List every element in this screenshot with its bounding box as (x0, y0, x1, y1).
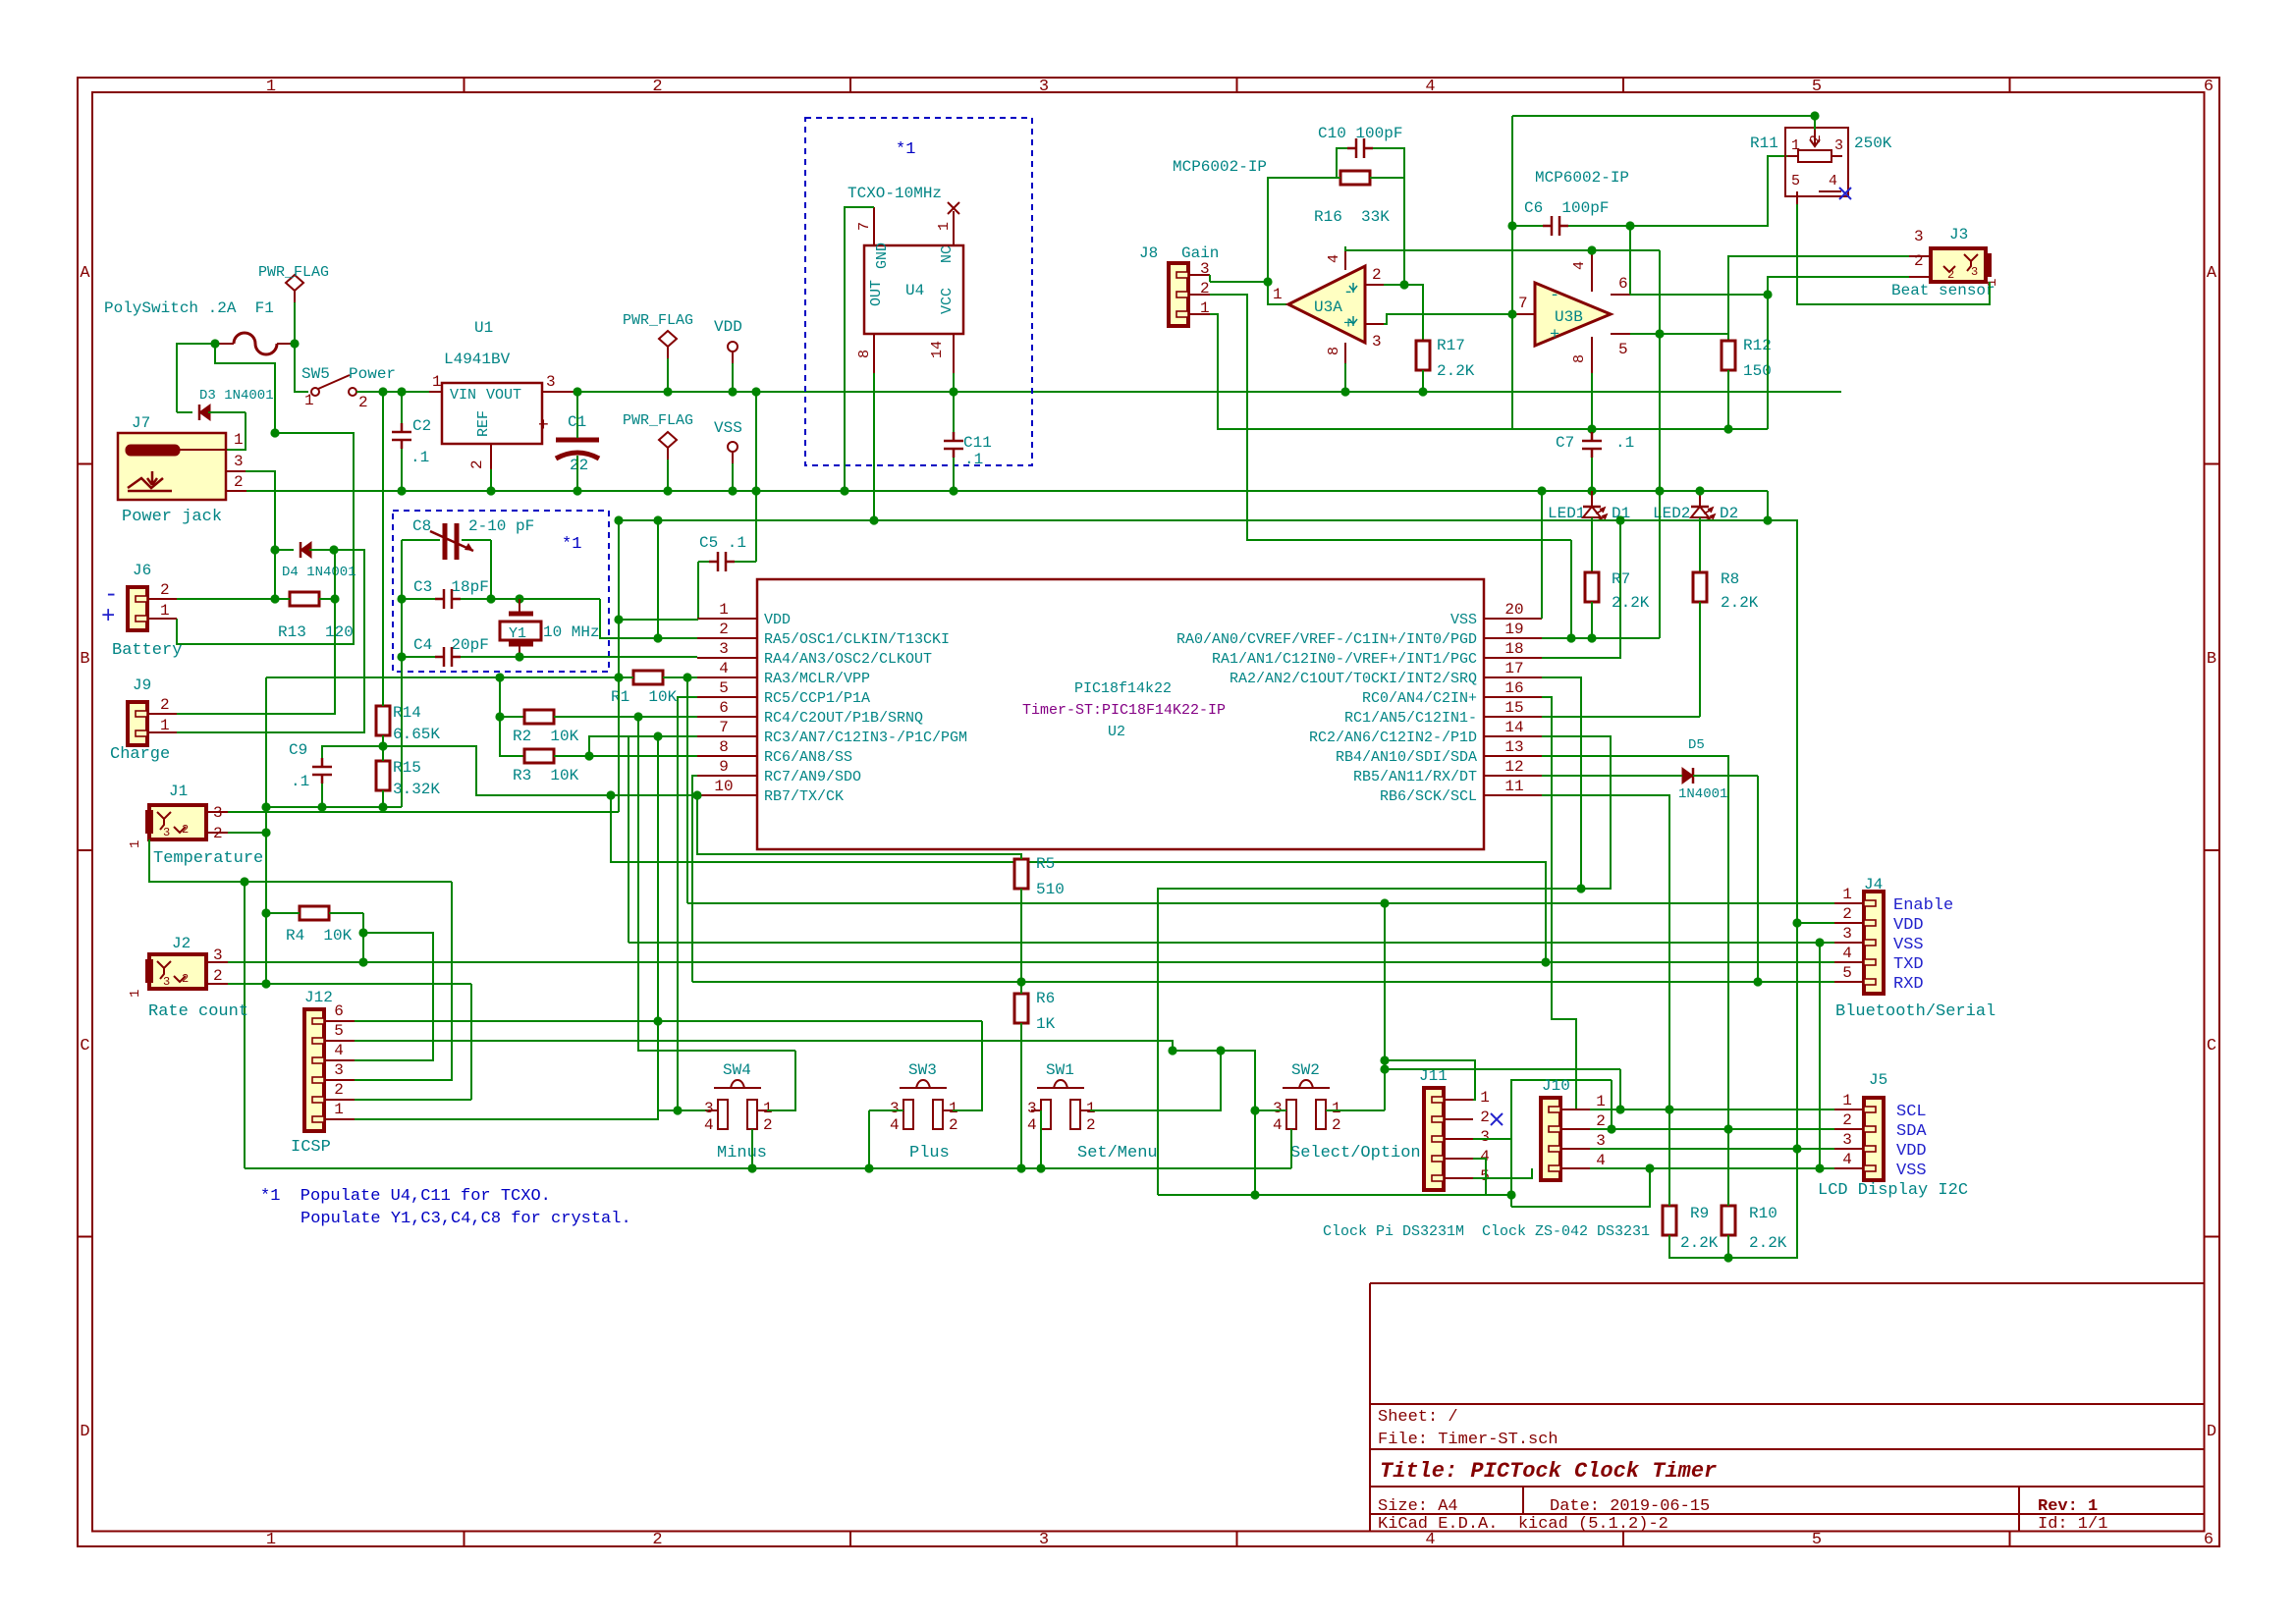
wire pin15 row to R8 (1542, 716, 1700, 718)
svg-text:1: 1 (936, 222, 953, 231)
svg-text:RC1/AN5/C12IN1-: RC1/AN5/C12IN1- (1344, 710, 1477, 727)
svg-text:GND: GND (874, 243, 891, 269)
resistor R13 120 (290, 592, 319, 606)
wire VSS pin20 riser (1541, 491, 1543, 619)
svg-text:3: 3 (1596, 1132, 1606, 1150)
U2 pin 2 (697, 637, 757, 639)
svg-text:.1: .1 (410, 449, 429, 466)
wire J8 pin1 down right (1210, 314, 1512, 429)
wire SW5 to U1 VIN (356, 391, 429, 393)
resistor R3 10K (524, 749, 554, 763)
U1 VOUT pin (542, 391, 577, 393)
svg-text:1: 1 (266, 1531, 276, 1549)
wire J12 pin1 row (355, 1110, 708, 1119)
svg-text:RC7/AN9/SDO: RC7/AN9/SDO (764, 769, 861, 785)
U3A pin1 stub (1286, 303, 1288, 305)
wire pin10 TX row (611, 794, 697, 796)
svg-text:U3A: U3A (1314, 298, 1342, 316)
wire D4 left junction down (274, 550, 276, 599)
svg-text:9: 9 (719, 758, 729, 776)
svg-text:RA3/MCLR/VPP: RA3/MCLR/VPP (764, 671, 870, 687)
svg-text:Timer-ST:PIC18F14K22-IP: Timer-ST:PIC18F14K22-IP (1022, 702, 1226, 719)
svg-text:Battery: Battery (112, 641, 182, 660)
U2 pin 17 (1484, 676, 1542, 678)
IC U4 TCXO (864, 245, 963, 334)
wire R5 top to RB7 row (697, 795, 1021, 859)
wire J8 pin2 down right to PGD row (1210, 295, 1571, 540)
svg-text:1: 1 (1842, 886, 1852, 903)
svg-text:5: 5 (1791, 173, 1800, 189)
wire J11 pin5 (1473, 1168, 1532, 1178)
wire J4 pin2 VDD (1797, 922, 1834, 924)
svg-text:U1: U1 (474, 319, 493, 337)
U2 pin 6 (697, 716, 757, 718)
svg-text:RC4/C2OUT/P1B/SRNQ: RC4/C2OUT/P1B/SRNQ (764, 710, 923, 727)
wire VSS row col down to bottom (1819, 943, 1821, 1168)
svg-text:*1 Populate U4,C11 for TCXO.: *1 Populate U4,C11 for TCXO. (260, 1187, 551, 1206)
svg-text:OUT: OUT (868, 280, 885, 306)
svg-text:PolySwitch .2A F1: PolySwitch .2A F1 (104, 299, 274, 317)
svg-text:R17: R17 (1437, 337, 1465, 354)
wire OUT down (873, 373, 875, 520)
svg-text:C5 .1: C5 .1 (699, 534, 746, 552)
wire pin5 to R12 (1630, 333, 1660, 335)
wire R8 bottom to pin15 row (1699, 602, 1701, 717)
wire J1 pin3 long row (228, 811, 619, 813)
svg-text:*1: *1 (896, 140, 915, 159)
svg-text:2.2K: 2.2K (1437, 362, 1475, 380)
wire J7 pin3 to D4 (246, 471, 275, 550)
svg-text:8: 8 (1571, 354, 1588, 363)
PWR_FLAG flag 2 and VDD symbol (659, 331, 677, 347)
wire pullup bottoms to VDD col (1669, 1149, 1797, 1258)
frame row ticks and labels (78, 463, 92, 465)
svg-text:-: - (1343, 284, 1353, 302)
resistor R10 2.2K (1722, 1206, 1735, 1235)
svg-text:2: 2 (1808, 135, 1825, 143)
svg-text:RB6/SCK/SCL: RB6/SCK/SCL (1380, 788, 1477, 805)
svg-text:2: 2 (1947, 268, 1954, 282)
svg-text:D: D (2207, 1423, 2216, 1441)
svg-text:6.65K: 6.65K (393, 726, 440, 743)
op-amp U3B (1535, 283, 1611, 346)
svg-text:RB5/AN11/RX/DT: RB5/AN11/RX/DT (1353, 769, 1477, 785)
svg-text:4: 4 (1027, 1116, 1037, 1134)
svg-text:1: 1 (1273, 286, 1283, 303)
svg-text:2: 2 (1914, 252, 1924, 270)
resistor R8 2.2K (1693, 572, 1707, 602)
svg-text:2: 2 (1332, 1116, 1341, 1134)
wire pin19 PGD riser (1570, 540, 1572, 638)
svg-text:PWR_FLAG: PWR_FLAG (623, 312, 693, 329)
svg-text:2: 2 (160, 696, 170, 714)
svg-text:4: 4 (719, 660, 729, 677)
wire R5 bottom (1020, 889, 1022, 982)
wire SW1 pin3 left down to bus (1040, 1110, 1042, 1168)
svg-text:3: 3 (1971, 265, 1978, 279)
svg-text:D: D (80, 1423, 89, 1441)
svg-text:13: 13 (1504, 738, 1523, 756)
svg-text:8: 8 (1326, 347, 1342, 355)
wire SDA riser from row 1100 (1611, 1080, 1613, 1129)
svg-text:2: 2 (1372, 266, 1382, 284)
U3B pin7 output stub (1512, 313, 1535, 315)
svg-text:VDD: VDD (714, 318, 742, 336)
svg-text:LCD Display I2C: LCD Display I2C (1818, 1181, 1968, 1200)
wire SW2 pin1 up right to J11 col (1326, 1109, 1385, 1111)
wire VDD pin1 row (619, 619, 698, 621)
svg-text:R5: R5 (1036, 855, 1055, 873)
wire VDD pin1 feed row (599, 598, 601, 600)
svg-text:J9: J9 (133, 676, 151, 694)
resistor R7 2.2K (1585, 572, 1599, 602)
wire J12 pin2 row (355, 1099, 471, 1101)
svg-text:1: 1 (334, 1101, 344, 1118)
wire D4 right elbow down to J9 pin1 (177, 550, 364, 732)
svg-text:R13 120: R13 120 (278, 623, 354, 641)
svg-text:J2: J2 (172, 935, 191, 952)
resistor R4 10K (300, 906, 329, 920)
wire row 1040 J12 pin6 (355, 1020, 982, 1022)
wire VDD col down (1796, 924, 1798, 1149)
svg-text:3.32K: 3.32K (393, 781, 440, 798)
dashed note box TCXO (805, 118, 1032, 465)
svg-text:19: 19 (1504, 621, 1523, 638)
svg-text:R10: R10 (1749, 1205, 1777, 1222)
svg-text:4: 4 (1326, 254, 1342, 263)
svg-text:5: 5 (719, 679, 729, 697)
wire pin17 SRQ (1542, 677, 1581, 889)
svg-text:3: 3 (1027, 1100, 1037, 1117)
svg-text:3: 3 (1273, 1100, 1283, 1117)
resistor R1 10K (633, 671, 663, 684)
svg-text:ICSP: ICSP (291, 1138, 331, 1157)
svg-text:C2: C2 (412, 417, 431, 435)
J7 pin3 stub (227, 470, 246, 472)
wire J4 pin4 TXD (611, 795, 1546, 962)
wire VSS row (1590, 1167, 1834, 1169)
U4 pin7 GND up (873, 207, 875, 245)
wire row 950 to J12 pin4 (355, 933, 433, 1060)
svg-text:1K: 1K (1036, 1015, 1056, 1033)
svg-text:7: 7 (1518, 295, 1528, 312)
wire C8 right down to C3 row (490, 540, 492, 599)
U2 pin 4 (697, 676, 757, 678)
svg-text:KiCad E.D.A. kicad (5.1.2)-2: KiCad E.D.A. kicad (5.1.2)-2 (1378, 1515, 1668, 1534)
R11 pin 4 no connect (1819, 190, 1841, 192)
U4 pin8 OUT down (873, 334, 875, 373)
svg-text:B: B (2207, 650, 2216, 669)
svg-text:2: 2 (1596, 1112, 1606, 1130)
svg-text:3: 3 (546, 373, 556, 391)
wire row 1089 to SCL riser (1385, 1068, 1620, 1070)
wire VSS left elbow to clock caption area (1511, 1168, 1650, 1207)
wire SW4 pin2 to bus (751, 1129, 753, 1168)
wire R4 right down to J2 pin3 row (362, 913, 364, 962)
svg-text:R6: R6 (1036, 990, 1055, 1007)
svg-text:RA5/OSC1/CLKIN/T13CKI: RA5/OSC1/CLKIN/T13CKI (764, 631, 950, 648)
wire J6 pin2 to R13 (177, 598, 275, 600)
wire C3 row right elbow to pin2 row (600, 599, 697, 638)
J3 pin3 wire (1909, 255, 1931, 257)
svg-text:8: 8 (719, 738, 729, 756)
svg-text:4: 4 (1571, 261, 1588, 270)
svg-text:Y1: Y1 (509, 625, 526, 642)
wire R1 pullup to VDD pin1 row (618, 520, 620, 812)
wire J11 pin1 up (1385, 1060, 1475, 1100)
wire SW2 pin3 from row 1070 col (1173, 1051, 1255, 1195)
VSS bus main horizontal (246, 490, 1768, 492)
U2 pin 15 (1484, 716, 1542, 718)
svg-text:.1: .1 (1615, 434, 1634, 452)
U2 pin 5 (697, 696, 757, 698)
svg-text:VOUT: VOUT (486, 387, 521, 404)
svg-text:1: 1 (1480, 1089, 1490, 1107)
svg-text:2: 2 (763, 1116, 773, 1134)
svg-text:RA0/AN0/CVREF/VREF-/C1IN+/INT0: RA0/AN0/CVREF/VREF-/C1IN+/INT0/PGD (1176, 631, 1477, 648)
wire R6 bottom to bus (1020, 1023, 1022, 1168)
svg-text:2.2K: 2.2K (1680, 1234, 1719, 1252)
bottom bus row 1190 (245, 1167, 1291, 1169)
PWR_FLAG flag 1 (286, 275, 303, 291)
svg-text:PIC18f14k22: PIC18f14k22 (1074, 680, 1172, 697)
wire row 1217 (1158, 1194, 1511, 1196)
svg-text:Power jack: Power jack (122, 508, 222, 526)
svg-text:10: 10 (714, 778, 733, 795)
svg-text:MCP6002-IP: MCP6002-IP (1535, 169, 1629, 187)
svg-text:1: 1 (160, 602, 170, 620)
svg-text:Id: 1/1: Id: 1/1 (2038, 1515, 2107, 1534)
svg-text:15: 15 (1504, 699, 1523, 717)
svg-text:TXD: TXD (1893, 955, 1924, 974)
wire pin6 row to beat sensor area (1630, 294, 1768, 296)
wire J4 pin5 RXD row (692, 981, 1834, 983)
svg-text:4: 4 (1842, 1151, 1852, 1168)
svg-text:12: 12 (1504, 758, 1523, 776)
svg-text:U4: U4 (905, 282, 924, 299)
U2 pin 13 (1484, 755, 1542, 757)
U3B pin 8 bottom (1591, 337, 1593, 373)
wire J4 pin3 VSS row (629, 736, 697, 943)
wire J12 pin5 long row (354, 1040, 355, 1042)
wire RC4 left ext to row 1070 (638, 717, 795, 1051)
U3B pin 4 top (1591, 253, 1593, 292)
svg-text:2: 2 (358, 394, 368, 411)
wire VDD row (1590, 1148, 1834, 1150)
svg-text:Plus: Plus (909, 1144, 950, 1163)
U3A pin2 stub (1365, 284, 1384, 286)
svg-text:3: 3 (1914, 228, 1924, 245)
wire row 436 R12 bottom (1592, 428, 1768, 430)
svg-text:Bluetooth/Serial: Bluetooth/Serial (1835, 1002, 1995, 1021)
svg-text:1: 1 (432, 373, 442, 391)
svg-text:J1: J1 (169, 783, 188, 800)
resistor R5 510 (1014, 859, 1028, 889)
resistor R17 2.2K (1416, 341, 1430, 370)
wire MCLR row 690 (266, 676, 619, 678)
svg-text:VSS: VSS (714, 419, 742, 437)
svg-text:VSS: VSS (1893, 936, 1924, 954)
svg-text:REF: REF (475, 410, 492, 437)
svg-text:14: 14 (1504, 719, 1523, 736)
svg-text:U3B: U3B (1555, 308, 1583, 326)
wire J2 pin2 col down to J12 pin2 (470, 984, 472, 1100)
svg-text:B: B (80, 650, 89, 669)
svg-text:6: 6 (334, 1002, 344, 1020)
svg-text:250K: 250K (1854, 135, 1892, 152)
svg-text:2.2K: 2.2K (1612, 594, 1650, 612)
wire D3 to J7 pin1 (227, 412, 246, 450)
svg-text:4: 4 (334, 1042, 344, 1059)
svg-text:R8: R8 (1721, 570, 1739, 588)
svg-text:J12: J12 (304, 989, 333, 1006)
U3A pin 8 bottom (1344, 343, 1346, 363)
J11 pin2 no connect (1491, 1113, 1503, 1125)
svg-text:4: 4 (1273, 1116, 1283, 1134)
svg-text:7: 7 (719, 719, 729, 736)
svg-text:7: 7 (856, 222, 873, 231)
svg-text:3: 3 (1842, 1131, 1852, 1149)
wire SCL riser from row 1089 (1619, 1069, 1621, 1109)
wire C9 bottom to gnd row (321, 784, 323, 807)
wire U4 gnd to left down (845, 207, 874, 491)
PWR_FLAG flag 3 and VSS symbol (659, 432, 677, 448)
svg-text:2: 2 (1480, 1109, 1490, 1126)
op-amp U3A (mirrored, pointing left) (1288, 266, 1365, 343)
svg-text:C11: C11 (963, 434, 992, 452)
wire SW3 pin1 from J12 pin6 row (953, 1021, 982, 1110)
svg-text:1: 1 (234, 431, 244, 449)
svg-text:1: 1 (128, 990, 143, 998)
wire SW1 pin1 up to row 1070 (1090, 1051, 1221, 1110)
J7 pin2 stub (227, 490, 246, 492)
wire pin16 C2IN (1542, 697, 1576, 1110)
U2 pin 1 (697, 618, 757, 620)
svg-text:5: 5 (334, 1022, 344, 1040)
svg-text:J8: J8 (1139, 244, 1158, 262)
wire row530 col down to pin2 (657, 520, 659, 638)
resistor R16 33K (1340, 171, 1370, 185)
svg-text:1: 1 (1332, 1100, 1341, 1117)
svg-text:C8: C8 (412, 517, 431, 535)
svg-text:5: 5 (1812, 78, 1822, 96)
wire J11 pin3 (1473, 1080, 1612, 1139)
svg-text:3: 3 (234, 453, 244, 470)
svg-text:*1: *1 (562, 535, 581, 554)
wire J10 left loop top (1590, 1109, 1620, 1110)
resistor R2 10K (524, 710, 554, 724)
wire J8 pin3 to U3A out col (1210, 281, 1268, 283)
svg-text:RA4/AN3/OSC2/CLKOUT: RA4/AN3/OSC2/CLKOUT (764, 651, 932, 668)
svg-text:R14: R14 (393, 704, 421, 722)
svg-text:6: 6 (2204, 1531, 2214, 1549)
svg-text:3: 3 (334, 1061, 344, 1079)
U2 pin 3 (697, 657, 757, 659)
svg-text:510: 510 (1036, 881, 1065, 898)
wire crystal left column (401, 540, 403, 657)
VDD bus horizontal (577, 391, 1841, 393)
wire VSS row riser right (1815, 1163, 1824, 1172)
svg-text:4: 4 (1596, 1152, 1606, 1169)
svg-text:A: A (2207, 264, 2217, 283)
wire battery loop upper (215, 344, 275, 433)
wire J1 pin2 to col (228, 832, 266, 834)
wire SW4 pin1 up right (767, 1051, 795, 1110)
svg-text:MCP6002-IP: MCP6002-IP (1173, 158, 1267, 176)
wire pin3 to U3B pin7 (1384, 314, 1512, 324)
wire C9 top to R14/R15 junction (322, 746, 383, 758)
svg-text:R4 10K: R4 10K (286, 927, 353, 945)
svg-text:1: 1 (266, 78, 276, 96)
U2 pin 7 (697, 735, 757, 737)
svg-text:3: 3 (163, 826, 170, 839)
svg-text:1: 1 (304, 392, 314, 409)
svg-text:SW2: SW2 (1291, 1061, 1320, 1079)
svg-text:2: 2 (719, 621, 729, 638)
wire RC3 col down (657, 736, 659, 1110)
wire R13 node to U2 VDD pin1 row (599, 598, 601, 600)
IC U2 PIC18F14K22 (757, 579, 1484, 849)
svg-text:SCL: SCL (1896, 1103, 1927, 1121)
svg-text:14: 14 (929, 341, 946, 358)
wire RA3 col down to J1 area (265, 833, 267, 984)
wire R7 bottom to pin19 row (1591, 602, 1593, 638)
svg-text:1: 1 (1086, 1100, 1096, 1117)
wire C6 left col (1511, 116, 1513, 314)
wire J11 pin4 (1473, 1159, 1486, 1195)
svg-text:2: 2 (1086, 1116, 1096, 1134)
svg-text:2: 2 (182, 972, 189, 986)
resistor R14 6.65K (376, 706, 390, 735)
svg-text:+: + (1343, 315, 1353, 334)
U3A pin 4 top (1344, 246, 1346, 270)
svg-text:18: 18 (1504, 640, 1523, 658)
svg-text:RXD: RXD (1893, 975, 1924, 994)
svg-text:NC: NC (939, 245, 956, 263)
svg-text:-: - (1550, 287, 1559, 305)
svg-text:C6 100pF: C6 100pF (1524, 199, 1609, 217)
svg-text:2: 2 (1842, 905, 1852, 923)
wire J2 pin3 long row (228, 961, 1834, 963)
svg-text:6: 6 (2204, 78, 2214, 96)
svg-text:1: 1 (128, 840, 143, 848)
svg-text:RC3/AN7/C12IN3-/P1C/PGM: RC3/AN7/C12IN3-/P1C/PGM (764, 730, 967, 746)
svg-text:SW1: SW1 (1046, 1061, 1074, 1079)
wire bus right end up to SW2 pin4 (1290, 1129, 1292, 1168)
svg-text:Populate Y1,C3,C4,C8 for cryst: Populate Y1,C3,C4,C8 for crystal. (301, 1210, 631, 1228)
svg-text:5: 5 (1812, 1531, 1822, 1549)
wire SW3 pin3 left down to bus (869, 1109, 903, 1111)
U2 pin 11 (1484, 794, 1542, 796)
svg-text:SW3: SW3 (908, 1061, 937, 1079)
wire RC5 left ext down (678, 697, 697, 1110)
svg-text:5: 5 (1618, 341, 1628, 358)
svg-text:C7: C7 (1556, 434, 1574, 452)
svg-text:J3: J3 (1949, 226, 1968, 243)
svg-text:6: 6 (719, 699, 729, 717)
wire J4 pin1 Enable row (687, 902, 1834, 904)
svg-text:Select/Option: Select/Option (1290, 1144, 1421, 1163)
svg-text:J6: J6 (133, 562, 151, 579)
wire VSS bus jog right end (1768, 491, 1797, 924)
svg-text:R3 10K: R3 10K (513, 767, 579, 784)
svg-text:2.2K: 2.2K (1721, 594, 1759, 612)
wire J2 pin2 row (228, 983, 471, 985)
svg-text:R9: R9 (1690, 1205, 1709, 1222)
U3A pin4 wire up and right to VSS drop (1345, 246, 1660, 250)
svg-text:2: 2 (652, 1531, 662, 1549)
wire SDA row (1590, 1128, 1834, 1130)
